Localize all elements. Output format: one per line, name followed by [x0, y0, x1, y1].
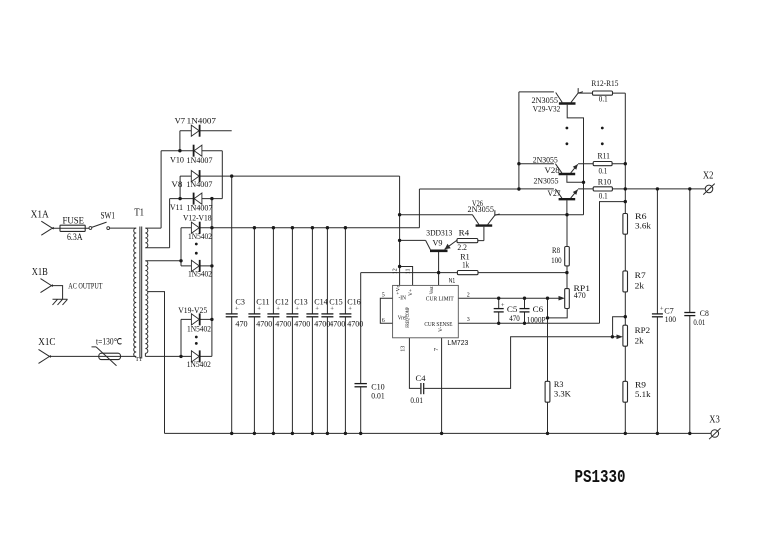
svg-text:0.01: 0.01: [410, 395, 423, 405]
svg-text:1N5402: 1N5402: [188, 269, 212, 279]
svg-text:4700: 4700: [347, 318, 363, 328]
svg-text:t=130℃: t=130℃: [96, 337, 122, 347]
svg-text:V19-V25: V19-V25: [178, 305, 207, 315]
svg-text:V9: V9: [433, 237, 443, 247]
svg-text:13: 13: [400, 346, 406, 352]
svg-text:1N4007: 1N4007: [187, 116, 217, 126]
svg-text:V-: V-: [438, 327, 444, 332]
svg-text:R3: R3: [554, 379, 564, 389]
svg-text:1000P: 1000P: [527, 314, 546, 324]
svg-text:+: +: [235, 306, 239, 313]
svg-text:4700: 4700: [256, 318, 272, 328]
svg-text:0.01: 0.01: [693, 317, 705, 327]
svg-text:0.1: 0.1: [599, 95, 608, 104]
svg-text:V12-V18: V12-V18: [183, 212, 212, 222]
svg-text:X2: X2: [703, 171, 714, 182]
svg-text:3.3K: 3.3K: [554, 389, 572, 399]
svg-text:R12-R15: R12-R15: [591, 79, 618, 88]
svg-text:2N3055: 2N3055: [468, 204, 495, 214]
svg-text:1N4007: 1N4007: [186, 179, 213, 189]
svg-text:1N5402: 1N5402: [187, 324, 211, 334]
svg-text:R10: R10: [598, 178, 611, 187]
svg-text:2k: 2k: [635, 335, 645, 345]
svg-text:+: +: [330, 306, 334, 313]
svg-text:2: 2: [467, 293, 470, 299]
svg-text:C6: C6: [533, 304, 544, 314]
svg-text:FUSE: FUSE: [63, 216, 85, 227]
svg-text:R9: R9: [635, 379, 646, 389]
svg-text:2k: 2k: [635, 280, 645, 290]
svg-text:4700: 4700: [294, 318, 310, 328]
svg-text:R4: R4: [459, 228, 470, 238]
svg-text:X1A: X1A: [31, 210, 50, 221]
svg-text:CUR LIMIT: CUR LIMIT: [426, 296, 454, 302]
svg-text:1k: 1k: [462, 259, 470, 269]
svg-text:+: +: [348, 306, 352, 313]
svg-text:470: 470: [574, 290, 586, 300]
svg-text:1N4007: 1N4007: [187, 202, 214, 212]
svg-text:N1: N1: [449, 278, 456, 285]
svg-text:3: 3: [467, 317, 470, 323]
svg-text:R7: R7: [635, 270, 647, 280]
svg-text:5: 5: [382, 292, 385, 298]
svg-text:AC OUTPUT: AC OUTPUT: [68, 281, 103, 291]
svg-text:6: 6: [382, 318, 385, 324]
svg-text:3.6k: 3.6k: [635, 220, 652, 230]
svg-text:0.01: 0.01: [371, 391, 384, 401]
svg-text:T1: T1: [135, 356, 142, 363]
svg-text:+: +: [315, 306, 319, 313]
svg-text:V11: V11: [170, 202, 183, 212]
svg-text:+: +: [501, 302, 505, 309]
svg-text:0.1: 0.1: [599, 166, 608, 175]
svg-text:470: 470: [509, 313, 520, 323]
svg-text:SW1: SW1: [101, 210, 116, 221]
svg-text:1N5402: 1N5402: [188, 231, 212, 241]
svg-text:LM723: LM723: [447, 338, 468, 347]
svg-text:+Vc: +Vc: [395, 285, 401, 295]
svg-text:100: 100: [665, 314, 676, 324]
svg-text:FREQ COMP: FREQ COMP: [405, 307, 411, 328]
svg-text:C4: C4: [416, 373, 427, 383]
svg-text:R8: R8: [552, 245, 560, 255]
svg-text:V8: V8: [171, 179, 182, 189]
svg-text:6.3A: 6.3A: [67, 232, 83, 243]
svg-text:1N5402: 1N5402: [187, 359, 211, 369]
svg-text:V7: V7: [175, 116, 186, 126]
svg-text:+: +: [257, 306, 261, 313]
svg-text:4700: 4700: [329, 318, 345, 328]
svg-text:2N3055: 2N3055: [534, 175, 559, 185]
svg-text:X1B: X1B: [32, 267, 48, 278]
svg-text:R6: R6: [635, 211, 647, 221]
svg-text:11: 11: [406, 269, 412, 275]
svg-text:R11: R11: [598, 152, 610, 161]
svg-text:4700: 4700: [275, 318, 291, 328]
svg-text:12: 12: [393, 268, 399, 274]
svg-text:0.1: 0.1: [599, 192, 608, 201]
svg-text:3DD313: 3DD313: [426, 228, 452, 238]
svg-text:X3: X3: [709, 415, 720, 426]
svg-text:-IN: -IN: [399, 296, 407, 302]
svg-text:+: +: [276, 306, 280, 313]
svg-text:V27: V27: [548, 188, 562, 198]
svg-text:2N3055: 2N3055: [533, 154, 558, 164]
svg-text:4700: 4700: [314, 318, 330, 328]
svg-text:V28: V28: [545, 165, 560, 175]
svg-text:470: 470: [235, 318, 247, 328]
svg-text:5.1k: 5.1k: [635, 389, 651, 399]
svg-text:+: +: [295, 306, 299, 313]
svg-text:1N4007: 1N4007: [187, 155, 214, 165]
svg-text:PS1330: PS1330: [575, 468, 626, 488]
svg-text:Vout: Vout: [429, 286, 435, 294]
svg-text:7: 7: [434, 348, 440, 351]
svg-text:100: 100: [551, 255, 562, 265]
svg-text:RP2: RP2: [635, 325, 651, 335]
svg-text:V10: V10: [170, 155, 184, 165]
svg-text:V+: V+: [408, 289, 414, 296]
svg-text:V29-V32: V29-V32: [533, 103, 561, 113]
svg-text:T1: T1: [134, 208, 144, 219]
svg-text:X1C: X1C: [38, 337, 55, 348]
